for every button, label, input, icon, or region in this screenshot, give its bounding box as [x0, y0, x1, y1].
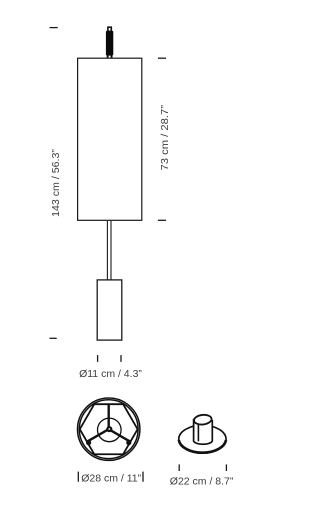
- base 3d view: tube right edge: [211, 420, 213, 441]
- dimension tick diameter 22cm right: [225, 464, 227, 471]
- top view: inner rim circle: [79, 400, 138, 459]
- plug right leg: [111, 55, 113, 59]
- top view: joint dot lower-left: [86, 440, 91, 445]
- plug loop on top of shade: [108, 27, 111, 31]
- label bar left of diameter 28: [77, 472, 79, 482]
- svg-text:Ø28 cm / 11”: Ø28 cm / 11”: [81, 472, 141, 484]
- dimension tick 143cm top: [50, 27, 58, 29]
- svg-text:143 cm / 56.3”: 143 cm / 56.3”: [50, 149, 62, 217]
- stem rod right line: [110, 221, 112, 280]
- base 3d view: tube top rim: [194, 414, 213, 425]
- stem rod left line: [106, 221, 108, 280]
- base cylinder (front view): [97, 280, 122, 340]
- label bar right of diameter 28: [142, 472, 144, 482]
- base 3d view: disk ellipse: [179, 425, 226, 453]
- dimension tick diameter 11cm left: [97, 355, 99, 362]
- lampshade cylinder (front view): [78, 58, 142, 220]
- dimension tick diameter 11cm right: [120, 355, 122, 362]
- base 3d view: tube body mask: [194, 417, 213, 444]
- top view: hub hole: [108, 428, 110, 430]
- dimension tick 73cm top: [158, 57, 166, 59]
- base 3d view: tube seam line: [197, 424, 199, 441]
- base 3d view: tube left edge: [193, 419, 195, 441]
- dimension tick 143cm bottom: [50, 337, 57, 339]
- plug left leg: [107, 55, 109, 59]
- base 3d view: disk bottom thick rim: [179, 440, 226, 453]
- dimension tick diameter 22cm left: [178, 464, 180, 471]
- top view: spoke lower-left: [87, 429, 109, 441]
- base 3d view: tube bottom arc: [194, 440, 213, 444]
- top view: joint dot lower-right: [126, 440, 131, 445]
- svg-text:Ø22 cm / 8.7”: Ø22 cm / 8.7”: [170, 475, 234, 487]
- dimension tick 73cm bottom: [158, 219, 166, 221]
- top view: hub dot: [106, 426, 112, 432]
- top view: spoke lower-right: [109, 429, 131, 441]
- svg-text:73 cm / 28.7”: 73 cm / 28.7”: [159, 104, 171, 170]
- top view: inner circle around hub: [98, 418, 122, 442]
- svg-text:Ø11 cm / 4.3”: Ø11 cm / 4.3”: [79, 368, 142, 380]
- top view: outer circle: [78, 398, 140, 460]
- top view: spoke up: [107, 404, 109, 429]
- top view: hexagon frame: [80, 404, 138, 454]
- plug body: [106, 31, 113, 56]
